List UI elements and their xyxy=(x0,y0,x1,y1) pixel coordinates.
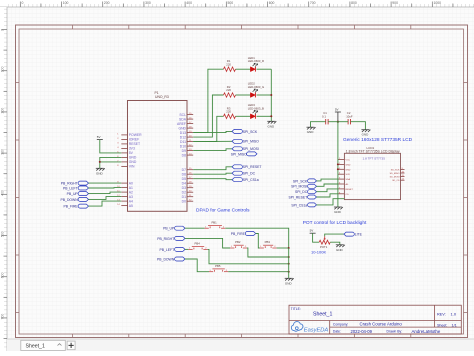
LED cathode bus wire xyxy=(270,69,272,121)
svg-text:Drawn By:: Drawn By: xyxy=(387,330,403,334)
net label PB_RIGHT xyxy=(61,181,89,185)
svg-text:PB_UP: PB_UP xyxy=(163,227,175,231)
net label SPI_CS1a xyxy=(232,178,259,182)
svg-text:LED-0603_B: LED-0603_B xyxy=(248,106,264,110)
svg-text:PB_RIGHT: PB_RIGHT xyxy=(61,182,78,186)
svg-text:SCL: SCL xyxy=(179,113,186,117)
LED LED1 LED-0603_R xyxy=(248,56,264,72)
svg-text:1/1: 1/1 xyxy=(452,323,457,327)
wire C2 right to ground xyxy=(351,122,366,130)
wire 5V to POT1 xyxy=(313,233,320,242)
pushbutton PB2 xyxy=(230,240,247,248)
svg-text:GND: GND xyxy=(346,169,351,171)
power +5V symbol POT xyxy=(310,229,316,234)
junction PB4 bus xyxy=(288,263,290,265)
wire GND pin6 to ground xyxy=(100,157,122,168)
svg-text:220: 220 xyxy=(226,62,231,66)
svg-text:5V: 5V xyxy=(129,151,134,155)
svg-text:0.1: 0.1 xyxy=(322,114,326,118)
U1 right pins D7-D0 xyxy=(182,168,194,204)
wire PB1 to button bus xyxy=(225,228,288,248)
svg-text:GND: GND xyxy=(268,124,276,128)
net label SPI_DC xyxy=(232,171,256,175)
resistor R3 220 xyxy=(224,106,236,118)
net label PB_FIRE xyxy=(64,204,89,208)
svg-text:RESET: RESET xyxy=(346,189,354,191)
svg-text:SD_MISO: SD_MISO xyxy=(390,173,400,175)
svg-text:GND: GND xyxy=(129,160,137,164)
wire U1 to net label SPI_RESET xyxy=(193,167,232,170)
svg-text:VIN: VIN xyxy=(129,165,135,169)
svg-text:GND: GND xyxy=(336,248,344,252)
svg-text:PB_RIGHT: PB_RIGHT xyxy=(157,237,174,241)
ground symbol POT xyxy=(336,245,345,252)
svg-text:A1: A1 xyxy=(129,186,133,190)
wire 5V rail down past LCD to ground xyxy=(337,122,339,207)
wire LED2 cathode to LED bus xyxy=(257,94,272,96)
svg-text:PB5: PB5 xyxy=(215,264,221,268)
LCD1 right pins xyxy=(390,168,405,182)
junction PB3 bus xyxy=(288,247,290,249)
EasyEDA logo xyxy=(291,322,328,334)
wire GND pin7 xyxy=(100,161,122,163)
svg-text:GND: GND xyxy=(346,164,351,166)
svg-text:A5: A5 xyxy=(129,204,133,208)
svg-text:PB_FIRE: PB_FIRE xyxy=(231,232,246,236)
ground symbol under C1 xyxy=(307,127,316,134)
svg-text:A4: A4 xyxy=(129,199,133,203)
svg-text:SPI_DC: SPI_DC xyxy=(243,172,256,176)
svg-text:POT1: POT1 xyxy=(320,245,328,249)
svg-text:Sheet_1: Sheet_1 xyxy=(313,311,332,317)
svg-text:GND: GND xyxy=(307,130,315,134)
svg-text:DPAD for Game Controls: DPAD for Game Controls xyxy=(196,207,250,213)
left ruler xyxy=(0,7,7,351)
svg-text:700: 700 xyxy=(1,314,5,320)
svg-text:SPI_MISO: SPI_MISO xyxy=(243,140,259,144)
IC U1 body: Arduino UNO P1 xyxy=(128,91,188,211)
net label SPI_RESET at LCD xyxy=(289,195,317,199)
net label SPI_MISO xyxy=(232,139,259,143)
svg-text:REV:: REV: xyxy=(437,313,446,317)
svg-text:LITE: LITE xyxy=(355,233,363,237)
svg-text:SPI_CS1a: SPI_CS1a xyxy=(291,203,307,207)
svg-text:A0: A0 xyxy=(129,181,133,185)
LCD1 left pins xyxy=(338,158,353,196)
svg-text:Date:: Date: xyxy=(333,330,341,334)
LCD module LCD1 body xyxy=(344,146,400,200)
svg-text:D12: D12 xyxy=(180,135,186,139)
wire C1 to 5V junction xyxy=(328,121,338,123)
svg-text:Company:: Company: xyxy=(333,322,349,326)
wire POT1 to ground xyxy=(330,242,340,245)
wire U1 to net label SPI_SCK xyxy=(193,131,232,132)
svg-text:SPI_RESET: SPI_RESET xyxy=(289,195,308,199)
svg-text:PB2: PB2 xyxy=(235,240,241,244)
svg-text:SPI_CS1a: SPI_CS1a xyxy=(243,178,259,182)
svg-text:LED-0603_R: LED-0603_R xyxy=(248,59,264,63)
net label SPI_MOSI at LCD xyxy=(291,184,316,188)
svg-text:220: 220 xyxy=(226,88,231,92)
svg-text:AREF: AREF xyxy=(177,122,186,126)
pushbutton PB4 xyxy=(188,242,207,250)
net label PB_UP xyxy=(67,192,89,196)
svg-text:VCC: VCC xyxy=(346,160,351,162)
svg-text:300: 300 xyxy=(1,149,5,155)
U1 right pins SCL..D8 xyxy=(177,113,193,158)
svg-text:0: 0 xyxy=(22,1,24,5)
wire PB2 to button bus xyxy=(247,248,289,257)
svg-text:SD_MOSI: SD_MOSI xyxy=(390,177,400,179)
svg-text:GND: GND xyxy=(362,133,370,137)
ground symbol below LCD xyxy=(334,207,343,214)
svg-text:GND: GND xyxy=(96,171,104,175)
svg-text:200: 200 xyxy=(1,108,5,114)
svg-text:SD_CS: SD_CS xyxy=(392,180,400,182)
svg-text:PB1: PB1 xyxy=(211,220,217,224)
net label SPI_SCK at LCD xyxy=(293,179,317,183)
ground symbol under C2 xyxy=(361,130,370,137)
wire R1 to LED1 xyxy=(236,68,251,70)
net label PB_FIRE xyxy=(231,232,256,236)
svg-text:5V: 5V xyxy=(310,229,314,233)
wire SPI_SCK to LCD pin xyxy=(317,179,339,181)
net label PB_DOWN xyxy=(61,197,89,201)
svg-text:GND: GND xyxy=(285,281,293,285)
junction PB5 bus xyxy=(288,271,290,273)
svg-text:D9: D9 xyxy=(182,149,186,153)
svg-text:PB3: PB3 xyxy=(265,240,271,244)
svg-text:D7: D7 xyxy=(182,168,186,172)
bottom tab bar xyxy=(0,339,474,356)
svg-text:SPI_SCK: SPI_SCK xyxy=(243,130,258,134)
net label SPI_RESET xyxy=(232,165,261,169)
resistor R2 220 xyxy=(224,85,236,97)
capacitor C1 0.1 xyxy=(322,111,328,124)
svg-text:SPI_DC: SPI_DC xyxy=(295,190,308,194)
svg-text:10uF: 10uF xyxy=(346,114,353,118)
power +5V symbol LCD xyxy=(335,107,341,112)
svg-text:500: 500 xyxy=(228,1,234,5)
svg-text:500: 500 xyxy=(1,231,5,237)
svg-text:D5: D5 xyxy=(182,177,186,181)
wire LED3 cathode to LED bus xyxy=(257,115,272,117)
svg-text:100: 100 xyxy=(63,1,69,5)
junction LCD pin3 xyxy=(337,168,339,170)
svg-text:1000: 1000 xyxy=(434,1,442,5)
svg-text:400: 400 xyxy=(1,190,5,196)
wire LED1 cathode to LED bus xyxy=(257,68,272,70)
LED LED2 LED-0603_G xyxy=(248,82,264,98)
svg-text:D0: D0 xyxy=(182,199,186,203)
pushbutton PB3 xyxy=(260,240,277,248)
svg-text:800: 800 xyxy=(351,1,357,5)
wire PB_RIGHT to pin xyxy=(89,182,122,184)
svg-text:D4: D4 xyxy=(182,181,186,185)
svg-text:SCK: SCK xyxy=(346,174,351,176)
junction GND wires xyxy=(99,161,101,163)
svg-text:D13: D13 xyxy=(180,131,186,135)
U1 left power pins xyxy=(117,133,142,169)
capacitor C2 10uF xyxy=(346,111,353,124)
svg-text:10-100K: 10-100K xyxy=(311,250,326,255)
svg-text:100: 100 xyxy=(1,66,5,72)
svg-text:SD_SCK: SD_SCK xyxy=(391,169,400,171)
svg-text:PB_DOWN: PB_DOWN xyxy=(61,198,79,202)
svg-text:SPI_MOSI: SPI_MOSI xyxy=(243,147,259,151)
junction PB2 bus xyxy=(288,256,290,258)
ground symbol chip left xyxy=(96,168,105,175)
svg-text:D6: D6 xyxy=(182,172,186,176)
svg-text:PB_LEFT: PB_LEFT xyxy=(159,248,174,252)
power +5V symbol at chip left xyxy=(97,135,103,140)
svg-text:CS: CS xyxy=(346,194,350,196)
svg-text:EasyEDA: EasyEDA xyxy=(304,328,329,334)
svg-text:SPI_MOSI: SPI_MOSI xyxy=(291,185,307,189)
net label PB_LEFT xyxy=(63,186,89,190)
junction LCD pin2 xyxy=(337,163,339,165)
svg-text:SPI_MISO: SPI_MISO xyxy=(231,152,247,156)
wire PB5 to button bus xyxy=(228,271,289,273)
net label SPI_CS1a at LCD xyxy=(291,203,316,207)
wire POT1 wiper to LITE xyxy=(325,234,344,236)
svg-text:A2: A2 xyxy=(129,190,133,194)
svg-text:1.0: 1.0 xyxy=(451,312,457,317)
net label LITE xyxy=(344,232,363,236)
svg-text:GND: GND xyxy=(178,126,186,130)
wire SPI_CS1a to LCD pin xyxy=(317,199,345,205)
wire PB_LEFT to pin xyxy=(89,187,122,189)
svg-text:D2: D2 xyxy=(182,190,186,194)
pushbutton PB5 xyxy=(209,264,228,272)
wire R2 to LED2 xyxy=(236,94,251,96)
svg-text:2022-04-09: 2022-04-09 xyxy=(351,329,373,334)
svg-text:PB4: PB4 xyxy=(195,242,201,246)
svg-text:5V: 5V xyxy=(335,107,339,111)
svg-text:D11: D11 xyxy=(180,140,186,144)
pushbutton PB1 xyxy=(205,220,226,228)
wire SPI_RESET to LCD pin xyxy=(317,194,339,197)
svg-text:TITLE:: TITLE: xyxy=(291,307,301,311)
svg-text:SDA: SDA xyxy=(179,117,187,121)
svg-text:5V: 5V xyxy=(97,135,101,139)
net label SPI_MISO reversed at D8 xyxy=(231,152,257,156)
wire PB_DOWN to PB5 xyxy=(185,259,209,272)
net label PB_RIGHT xyxy=(157,236,185,240)
net label PB_UP xyxy=(163,226,185,230)
ground symbol LED bus xyxy=(267,121,276,128)
wire PB_UP to pin xyxy=(89,192,122,194)
wire PB3 to button bus xyxy=(277,247,289,249)
U1 left analog pins A0-A5 xyxy=(117,181,133,208)
wire PB_RIGHT to PB2 xyxy=(185,238,230,248)
net label PB_LEFT xyxy=(159,247,185,251)
svg-text:3V3: 3V3 xyxy=(129,147,135,151)
wire PB_LEFT to PB4 xyxy=(185,248,188,250)
net label PB_DOWN xyxy=(157,257,185,261)
wire 5V symbol down xyxy=(337,112,339,122)
wire R3 row from U1 pin xyxy=(193,116,223,141)
wire R1 row from U1 pin xyxy=(193,69,223,132)
svg-text:RESET: RESET xyxy=(129,142,140,146)
svg-text:Sheet:: Sheet: xyxy=(437,323,447,327)
top ruler xyxy=(0,0,474,7)
svg-text:600: 600 xyxy=(1,272,5,278)
svg-text:SDA: SDA xyxy=(346,178,351,181)
svg-text:LED-0603_G: LED-0603_G xyxy=(248,85,264,89)
svg-text:PB_LEFT: PB_LEFT xyxy=(63,186,78,190)
svg-text:Crash Course Arduino: Crash Course Arduino xyxy=(360,321,403,326)
svg-text:UNO_R3: UNO_R3 xyxy=(155,95,169,99)
net label SPI_DC at LCD xyxy=(295,190,317,194)
ground symbol button bus xyxy=(285,278,294,285)
wire SPI_DC to LCD pin xyxy=(317,189,339,192)
net label SPI_MOSI xyxy=(232,147,259,151)
wire SPI_MOSI to LCD pin xyxy=(317,184,339,186)
svg-text:SPI_SCK: SPI_SCK xyxy=(293,179,308,183)
wire R3 to LED3 xyxy=(236,115,251,117)
wire PB_DOWN to pin xyxy=(89,197,122,200)
wire PB_UP to PB1 xyxy=(185,227,205,229)
wire U1 to net label SPI_MOSI xyxy=(193,149,232,151)
svg-text:GND: GND xyxy=(129,156,137,160)
svg-text:700: 700 xyxy=(310,1,316,5)
svg-text:PB_UP: PB_UP xyxy=(67,192,79,196)
junction 5V rail xyxy=(337,121,339,123)
svg-text:PB_FIRE: PB_FIRE xyxy=(64,205,79,209)
svg-text:200: 200 xyxy=(104,1,110,5)
net label SPI_SCK xyxy=(232,129,258,133)
wire 5V junction to C2 xyxy=(338,121,348,123)
wire PB_FIRE to pin xyxy=(89,201,122,206)
wire R2 row from U1 pin xyxy=(193,95,223,137)
title block xyxy=(289,305,461,334)
svg-text:A3: A3 xyxy=(129,195,133,199)
wire PB4 to button bus xyxy=(208,249,289,263)
wire U1 to net label SPI_CS1a xyxy=(193,179,232,180)
svg-text:D10: D10 xyxy=(180,144,186,148)
svg-text:SPI_RESET: SPI_RESET xyxy=(243,165,262,169)
resistor R1 220 xyxy=(224,59,236,71)
svg-text:900: 900 xyxy=(392,1,398,5)
junction LED bus row2 xyxy=(270,94,272,96)
svg-text:Generic 160x128 ST7735R LCD: Generic 160x128 ST7735R LCD xyxy=(343,137,413,143)
button bus wire to ground xyxy=(288,248,290,278)
svg-text:D3: D3 xyxy=(182,186,186,190)
svg-text:PB_DOWN: PB_DOWN xyxy=(157,257,175,261)
svg-text:POT control for LCD backlight: POT control for LCD backlight xyxy=(303,220,367,226)
svg-text:220: 220 xyxy=(226,110,231,114)
svg-text:400: 400 xyxy=(186,1,192,5)
svg-text:600: 600 xyxy=(269,1,275,5)
svg-text:300: 300 xyxy=(145,1,151,5)
svg-text:POWER: POWER xyxy=(129,133,142,137)
svg-text:Sheet_1: Sheet_1 xyxy=(26,343,45,349)
svg-text:1.8 inch TFT ST7735S LCD Displ: 1.8 inch TFT ST7735S LCD Display xyxy=(346,150,400,154)
svg-text:D8: D8 xyxy=(182,153,186,157)
svg-text:1.8 TFT ST7735: 1.8 TFT ST7735 xyxy=(363,156,386,160)
LED LED3 LED-0603_B xyxy=(248,103,264,119)
svg-text:D1: D1 xyxy=(182,195,186,199)
wire PB_FIRE to PB3 xyxy=(256,234,260,249)
wire U1 to net label SPI_MISO xyxy=(193,140,232,142)
svg-text:AndreLaMothe: AndreLaMothe xyxy=(412,329,441,334)
wire 5V to pin 5V xyxy=(100,140,122,153)
junction LED bus row3 xyxy=(270,115,272,117)
wire C1 left to ground xyxy=(311,122,326,128)
svg-text:0: 0 xyxy=(1,29,5,31)
potentiometer POT1 xyxy=(319,236,330,249)
svg-text:IOREF: IOREF xyxy=(129,138,139,142)
svg-text:GND: GND xyxy=(334,210,342,214)
wire U1 to net label SPI_DC xyxy=(193,173,232,174)
